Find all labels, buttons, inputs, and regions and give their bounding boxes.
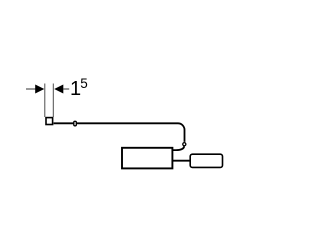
supply pipe left wall (44, 84, 46, 118)
svg-text:5: 5 (80, 76, 88, 91)
supply pipe right wall (52, 84, 54, 118)
power supply box (190, 154, 222, 167)
dimension line right (63, 88, 69, 90)
cable from plug into box (172, 146, 184, 150)
connector bead on cable (74, 121, 77, 126)
dimension line left (26, 88, 36, 90)
cable horizontal + bend down (54, 123, 185, 142)
plug ring (183, 143, 186, 146)
connector line between boxes (173, 160, 190, 162)
dimension arrowhead right (54, 85, 63, 94)
dimension arrowhead left (35, 85, 44, 94)
control box (122, 148, 172, 169)
valve square (46, 118, 53, 125)
